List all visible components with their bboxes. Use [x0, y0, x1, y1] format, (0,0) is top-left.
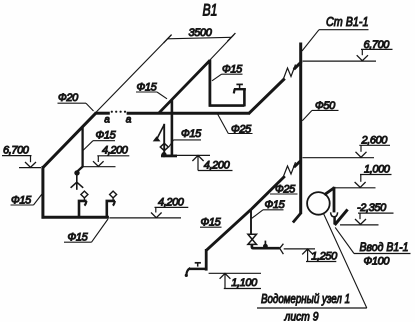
- pipe left vertical: [41, 166, 44, 219]
- label F15 middle riser: [169, 128, 202, 147]
- junction dot with tick: [263, 244, 268, 249]
- inlet diagonal: [335, 209, 348, 225]
- valve stub vertical: [250, 210, 252, 235]
- pipe meter vertical: [333, 187, 336, 213]
- valve diamond middle: [160, 143, 168, 150]
- svg-text:1,000: 1,000: [364, 164, 391, 176]
- elevation -2,350: [340, 202, 394, 225]
- svg-text:Ст В1-1: Ст В1-1: [326, 14, 369, 29]
- svg-text:Ф15: Ф15: [181, 128, 202, 140]
- label F15 left: [11, 194, 43, 207]
- svg-text:Водомерный узел 1: Водомерный узел 1: [261, 292, 350, 306]
- pipe main horizontal B: [127, 112, 250, 115]
- svg-text:В1: В1: [203, 1, 218, 20]
- elevation 2,600: [303, 134, 391, 157]
- valve bowtie: [248, 234, 257, 239]
- faucet bottom: [185, 263, 207, 277]
- label Vodomerny uzel 1: [257, 214, 367, 322]
- elevation 1,000: [335, 164, 392, 188]
- label F15 bottom-mid diagonal: [200, 217, 222, 229]
- label F25 main: [217, 114, 252, 136]
- pipe diagonal F15 lower-mid: [206, 210, 251, 251]
- junction dot shower: [74, 170, 79, 175]
- svg-text:6,700: 6,700: [3, 144, 30, 156]
- drain cup symbol: [331, 212, 338, 217]
- pipe below bowtie to fishtail: [252, 244, 280, 248]
- svg-text:2,600: 2,600: [361, 134, 389, 146]
- label F15 upper diagonal: [136, 82, 167, 99]
- pipe bottom horizontal: [42, 216, 109, 219]
- label F20: [58, 92, 94, 111]
- pipe main horizontal A: [95, 112, 110, 115]
- label Vvod V1-1: [335, 227, 410, 267]
- junction dot middle: [161, 152, 166, 157]
- label F25 lower diagonal: [270, 183, 298, 195]
- svg-text:Ф15: Ф15: [96, 130, 117, 142]
- water meter circle: [307, 192, 330, 215]
- valve diamond 2: [110, 191, 117, 198]
- riser middle: [171, 100, 174, 157]
- label F15 valve stub: [252, 199, 286, 218]
- pipe from meter to peak: [324, 188, 334, 195]
- mixer stub 1: [79, 201, 87, 219]
- elevation 4,200 middle: [174, 155, 233, 171]
- riser bottom bend: [293, 213, 301, 223]
- svg-text:а: а: [104, 114, 110, 125]
- svg-text:а: а: [126, 115, 132, 126]
- elevation 4,200 left: [83, 144, 129, 166]
- pipe diagonal to riser (lower part): [249, 79, 285, 114]
- svg-text:3500: 3500: [189, 27, 213, 39]
- svg-text:-2,350: -2,350: [357, 202, 387, 214]
- pipe diagonal F25 to riser: [251, 176, 285, 210]
- pipe U-loop left vertical: [208, 60, 211, 107]
- tap symbol middle: [156, 124, 164, 140]
- node a-a break dots: [111, 111, 126, 113]
- shower branch vertical: [77, 127, 82, 172]
- pipe U-loop diagonal: [159, 60, 210, 113]
- shower head trident: [71, 175, 84, 190]
- svg-text:1,250: 1,250: [311, 250, 338, 262]
- fishtail break: [280, 244, 284, 254]
- pipe main diagonal left: [43, 113, 96, 168]
- label F15 shower branch: [83, 130, 117, 151]
- break symbol lower: [283, 162, 296, 177]
- mixer stub 2: [107, 201, 115, 219]
- faucet top: [234, 84, 246, 93]
- pipe U-loop right vertical: [243, 90, 246, 107]
- elevation 6,700 left: [2, 144, 41, 167]
- elevation 4,200 bottom: [109, 197, 188, 218]
- label F50: [302, 100, 338, 121]
- branch vertical with tap: [163, 124, 165, 154]
- pipe bottom-mid vertical: [205, 249, 208, 271]
- dimension 3500: [96, 27, 235, 113]
- svg-text:Ф100: Ф100: [364, 255, 391, 267]
- label F15 U-loop: [212, 64, 243, 81]
- svg-text:Ввод В1-1: Ввод В1-1: [360, 240, 409, 254]
- pipe diagonal to riser (upper part): [294, 62, 302, 70]
- pipe stub at 4.200: [161, 154, 177, 157]
- pipe below cup: [333, 217, 336, 225]
- elevation 1,100: [209, 273, 261, 289]
- svg-text:Ф20: Ф20: [58, 92, 79, 104]
- pipe U-loop bottom: [209, 104, 245, 107]
- label St V1-1: [302, 14, 369, 51]
- riser St V1-1: [299, 43, 302, 215]
- svg-text:1,100: 1,100: [231, 277, 258, 289]
- svg-text:4,200: 4,200: [102, 144, 129, 156]
- break symbol upper: [283, 65, 296, 81]
- elevation 6,700 right: [303, 39, 393, 61]
- svg-text:лист 9: лист 9: [284, 310, 319, 322]
- label F15 bottom-left: [64, 219, 108, 244]
- elevation 1,250: [284, 249, 338, 263]
- valve diamond 1: [81, 191, 88, 198]
